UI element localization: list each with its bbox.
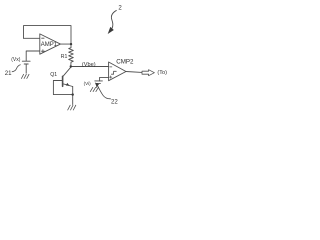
wire Vx source to ground	[25, 64, 27, 73]
wire node Vbe rail	[71, 66, 109, 68]
battery source Vx long plate	[22, 60, 30, 62]
reference numeral 22 leader	[97, 85, 110, 99]
wire Vi source to ground	[96, 83, 99, 87]
junction node at AMP1 output	[70, 43, 72, 45]
comparator CMP2	[109, 62, 126, 81]
battery source Vi long plate	[95, 80, 103, 82]
Q1 emitter arrowhead	[66, 83, 70, 86]
ground under Vx	[21, 74, 29, 78]
junction node at Q1 emitter/base loop	[72, 93, 74, 95]
svg-text:(To): (To)	[157, 70, 167, 76]
svg-text:Q1: Q1	[50, 72, 57, 78]
ground under Vi	[90, 87, 98, 91]
svg-text:22: 22	[111, 98, 118, 105]
svg-text:R1: R1	[61, 54, 68, 60]
junction node at Vbe	[70, 65, 72, 67]
resistor R1	[69, 44, 74, 66]
op-amp AMP1	[40, 34, 61, 54]
wire Q1 emitter to ground	[72, 87, 74, 105]
wire feedback loop AMP1 output to inverting input	[24, 26, 72, 44]
svg-text:(Vbe): (Vbe)	[82, 62, 96, 68]
minus sign CMP2 inverting input	[110, 66, 112, 68]
leader 22 arrowhead	[95, 83, 99, 87]
battery source Vi short plate	[96, 82, 100, 84]
wire AMP1 output	[60, 43, 71, 45]
svg-text:(Vi): (Vi)	[84, 81, 92, 86]
transistor Q1 base bar	[62, 76, 64, 86]
reference numeral 21 leader	[12, 65, 21, 72]
output arrow symbol to To	[142, 70, 154, 76]
reference numeral 2 leader arrow	[111, 10, 116, 28]
minus sign AMP1 inverting input	[42, 37, 45, 39]
svg-text:AMP1: AMP1	[41, 42, 58, 48]
plus sign AMP1 non-inverting input	[41, 50, 44, 53]
wire AMP1 inverting input	[24, 37, 40, 39]
transistor Q1 collector	[63, 67, 71, 76]
battery source Vx short plate	[24, 63, 28, 65]
wire CMP2 output	[126, 71, 142, 74]
svg-text:CMP2: CMP2	[116, 58, 134, 65]
wire AMP1 non-inverting input from Vx	[26, 51, 39, 61]
ground under Q1	[68, 105, 76, 110]
hysteresis symbol inside CMP2	[111, 71, 116, 74]
wire Q1 base loop	[53, 81, 72, 95]
transistor Q1 emitter	[63, 84, 73, 87]
svg-text:(Vx): (Vx)	[11, 57, 21, 63]
plus sign CMP2 non-inverting input	[110, 76, 112, 78]
wire CMP2 lower input from Vi	[100, 77, 109, 81]
svg-text:21: 21	[5, 70, 12, 77]
